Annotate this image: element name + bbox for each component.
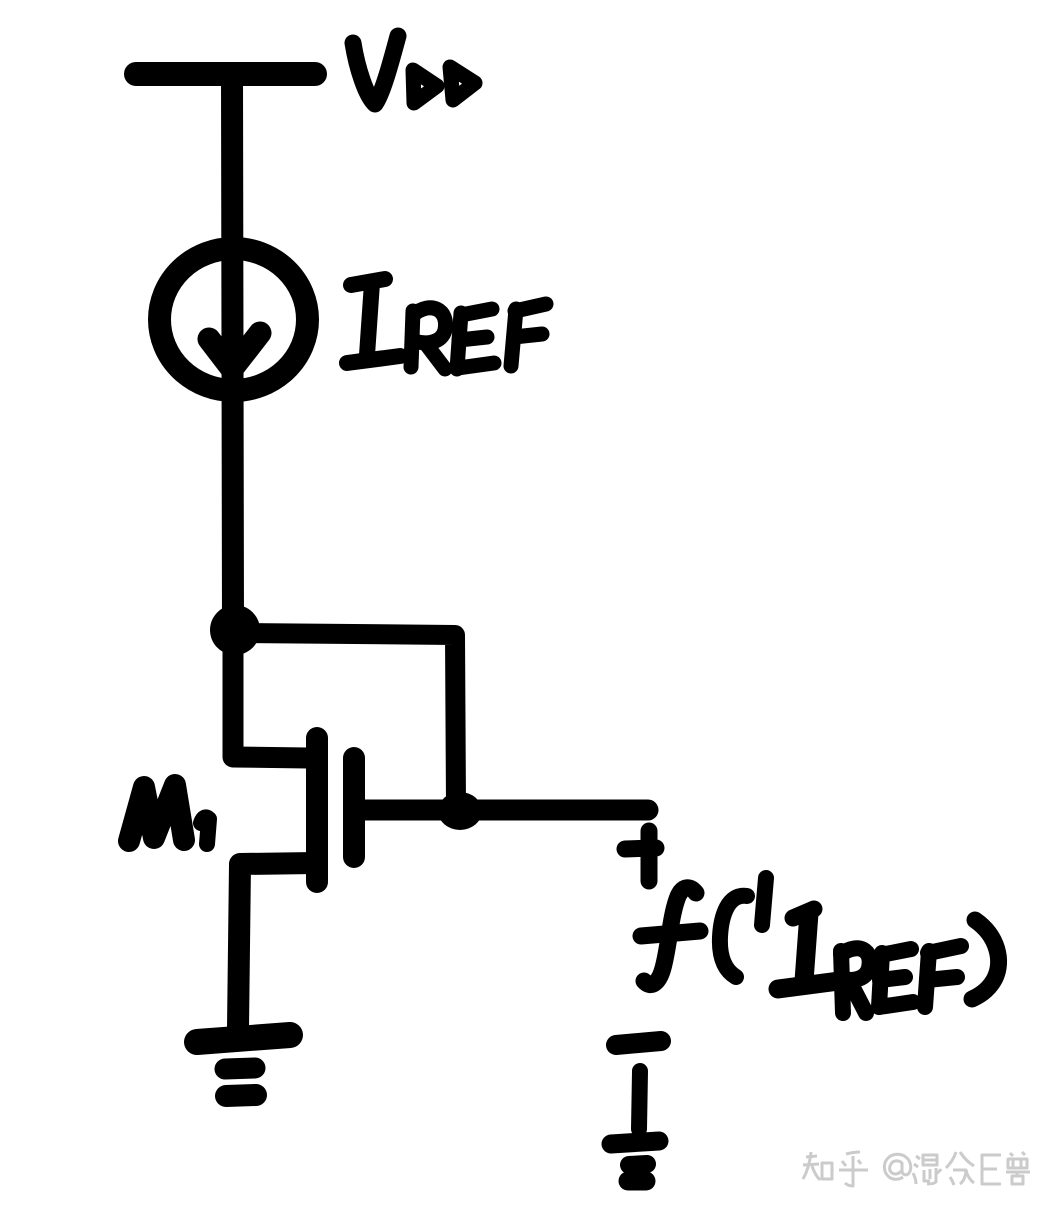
transistor M1 xyxy=(317,738,354,882)
plus terminal xyxy=(625,831,656,881)
label M1 xyxy=(129,785,209,844)
wire VDD rail xyxy=(136,62,315,86)
watermark zhihu xyxy=(803,1152,1030,1186)
wire gate-drain tie xyxy=(247,633,456,806)
node B junction dot xyxy=(438,792,482,830)
wire drain output xyxy=(362,800,648,821)
ground right xyxy=(611,1071,659,1181)
label f(IREF) xyxy=(641,878,999,1013)
label VDD xyxy=(353,36,475,104)
minus terminal xyxy=(616,1041,661,1045)
node A junction dot xyxy=(210,605,260,655)
wire from VDD to node A xyxy=(232,76,233,630)
wire gate xyxy=(233,642,308,758)
wire source xyxy=(238,863,316,1028)
ground left xyxy=(197,1035,290,1096)
current source IREF xyxy=(160,249,308,391)
label IREF xyxy=(347,279,546,369)
